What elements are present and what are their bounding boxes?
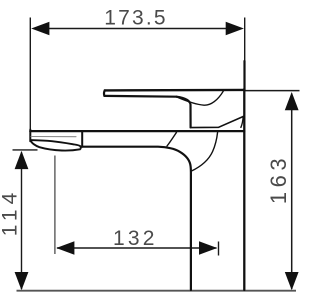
svg-text:132: 132 bbox=[113, 227, 158, 250]
svg-text:173.5: 173.5 bbox=[104, 6, 168, 29]
svg-text:114: 114 bbox=[0, 188, 22, 236]
svg-text:163: 163 bbox=[266, 154, 291, 204]
